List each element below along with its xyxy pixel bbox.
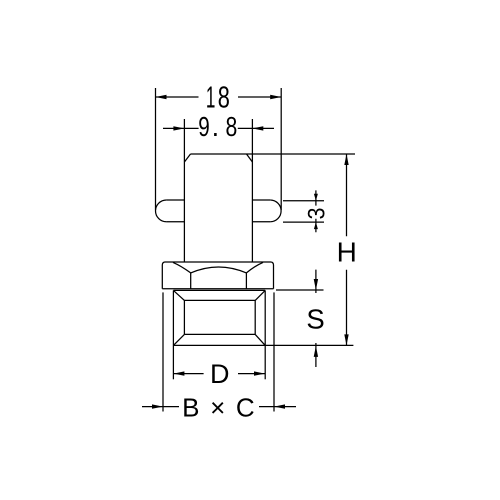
svg-text:8: 8 xyxy=(226,111,238,142)
svg-text:D: D xyxy=(210,359,230,389)
svg-text:S: S xyxy=(306,303,324,334)
svg-text:B × C: B × C xyxy=(182,392,255,422)
svg-text:9: 9 xyxy=(198,111,210,142)
svg-text:H: H xyxy=(337,236,357,267)
svg-text:8: 8 xyxy=(218,80,230,115)
svg-text:.: . xyxy=(212,111,220,142)
svg-text:1: 1 xyxy=(206,80,216,115)
svg-text:3: 3 xyxy=(303,208,330,220)
